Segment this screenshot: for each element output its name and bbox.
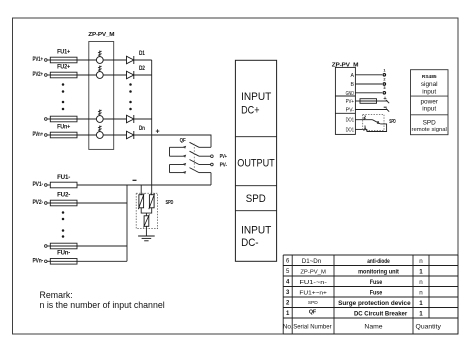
- svg-text:PV-: PV-: [346, 108, 355, 114]
- fuse channel-k: [50, 116, 77, 122]
- wire: [134, 74, 152, 76]
- varistor RV3: [144, 214, 150, 227]
- QF pole 4: [170, 168, 212, 175]
- node PV+ output terminal: [211, 154, 228, 160]
- wire U-link 2: [169, 165, 171, 173]
- ellipsis dots diode column: [129, 83, 132, 110]
- svg-text:GND: GND: [346, 91, 355, 97]
- wire: [77, 134, 96, 136]
- node PVn- terminal: [33, 257, 48, 264]
- pin DO1 lower: [346, 127, 367, 133]
- wire: [103, 74, 126, 76]
- middle terminal box: [235, 60, 276, 261]
- pin DO1 upper: [346, 118, 373, 124]
- svg-text:QF: QF: [180, 138, 187, 144]
- QF pole 3: [170, 160, 211, 167]
- wire: [47, 260, 50, 262]
- svg-text:SPD: SPD: [308, 300, 318, 306]
- svg-text:DO1: DO1: [346, 118, 354, 124]
- monitoring unit box ZP-PV_M (left): [88, 32, 114, 149]
- svg-text:INPUT: INPUT: [241, 91, 271, 103]
- svg-text:1: 1: [419, 310, 423, 317]
- node PV- output terminal: [211, 163, 228, 169]
- svg-text:FU1+~n+: FU1+~n+: [299, 290, 327, 296]
- table row 2 SPD: [286, 300, 423, 307]
- svg-text:PV2+: PV2+: [33, 71, 44, 78]
- svg-text:SPD: SPD: [246, 193, 266, 205]
- node minus collector bus: [126, 185, 128, 261]
- svg-text:n: n: [419, 258, 423, 265]
- fuse FU1-: [50, 175, 77, 188]
- svg-text:DO1: DO1: [346, 127, 354, 133]
- svg-text:FUn+: FUn+: [57, 125, 71, 131]
- table row 3 fuse plus: [286, 289, 423, 296]
- svg-text:Serial Number: Serial Number: [293, 325, 331, 331]
- node PV1- terminal: [33, 181, 48, 188]
- svg-text:SPD: SPD: [423, 120, 437, 127]
- wire power minus end: [384, 107, 390, 112]
- svg-text:DC-: DC-: [241, 237, 259, 249]
- wire: [77, 245, 127, 247]
- fuse FU2+: [50, 65, 77, 78]
- varistor RV2: [149, 193, 155, 209]
- wire: [47, 118, 50, 120]
- wire: [47, 59, 50, 61]
- svg-text:monitoring unit: monitoring unit: [358, 269, 399, 276]
- node terminal 1: [383, 67, 386, 76]
- diode channel k: [127, 115, 134, 123]
- svg-text:1: 1: [419, 300, 423, 307]
- monitoring unit connector ZP-PV_M (right): [332, 63, 359, 135]
- QF linkage (dashed): [193, 144, 195, 171]
- svg-text:PVn-: PVn-: [33, 257, 44, 264]
- fuse FU2-: [50, 192, 77, 206]
- svg-text:DC+: DC+: [241, 104, 259, 116]
- node channel-k minus terminal: [45, 245, 48, 248]
- wire: [47, 74, 50, 76]
- svg-text:A: A: [351, 73, 355, 79]
- svg-text:FU2+: FU2+: [57, 65, 71, 71]
- svg-text:FU2-: FU2-: [57, 192, 70, 198]
- svg-text:ZP-PV_M: ZP-PV_M: [88, 32, 114, 38]
- pin PV+: [346, 99, 360, 105]
- fuse FUn-: [50, 250, 77, 264]
- label SPD remote: [389, 119, 396, 125]
- svg-text:No.: No.: [283, 324, 293, 331]
- CT sensor channel k: [96, 110, 103, 123]
- node terminal 3: [383, 85, 386, 94]
- svg-text:Fuse: Fuse: [370, 279, 383, 286]
- wire: [47, 184, 50, 186]
- svg-text:signal: signal: [421, 81, 438, 88]
- CT sensor channel 2: [96, 66, 103, 79]
- svg-text:Remark:: Remark:: [40, 290, 73, 300]
- node PV1+ terminal: [33, 56, 48, 63]
- svg-text:OUTPUT: OUTPUT: [237, 157, 275, 169]
- svg-text:Dn: Dn: [139, 125, 145, 132]
- svg-text:D1: D1: [139, 50, 145, 57]
- svg-text:n: n: [419, 279, 423, 286]
- wire: [103, 134, 126, 136]
- pin A: [351, 73, 382, 79]
- wire varistor leg minus: [140, 185, 142, 195]
- wire: [134, 59, 152, 61]
- wire: [134, 134, 152, 136]
- wire: [47, 202, 50, 204]
- svg-text:DC Circuit Breaker: DC Circuit Breaker: [354, 311, 408, 318]
- svg-text:input: input: [422, 105, 436, 112]
- svg-text:QF: QF: [309, 310, 317, 316]
- svg-text:n is the number of input chann: n is the number of input channel: [40, 300, 165, 310]
- svg-text:PV+: PV+: [220, 154, 228, 160]
- relay contact 1: [364, 124, 367, 129]
- node PVn+ terminal: [33, 131, 48, 138]
- wire: [103, 118, 126, 120]
- svg-text:FU1-~n-: FU1-~n-: [299, 280, 327, 286]
- relay blade 3: [372, 120, 380, 125]
- diode Dn: [127, 125, 146, 139]
- table row 4 fuse minus: [286, 279, 423, 286]
- wire relay common route: [367, 124, 387, 132]
- wire power plus end: [377, 96, 390, 103]
- ellipsis dots fuse column top: [62, 83, 65, 110]
- svg-text:Surge protection device: Surge protection device: [338, 300, 411, 307]
- svg-text:INPUT: INPUT: [241, 225, 271, 237]
- fuse FUn+: [50, 125, 77, 138]
- diode D1: [127, 50, 146, 64]
- QF pole 2: [170, 151, 211, 158]
- svg-text:Fuse: Fuse: [370, 290, 383, 297]
- BOM table grid: [283, 255, 458, 334]
- node channel-k terminal: [45, 118, 48, 121]
- svg-text:PV1-: PV1-: [33, 181, 44, 188]
- svg-text:input: input: [422, 88, 436, 95]
- relay SPD remote switch (dashed box): [363, 114, 384, 130]
- surge protection device SPD (dashed box): [136, 193, 173, 228]
- wire: [134, 118, 152, 120]
- table row 6 anti-diode: [286, 258, 423, 265]
- svg-text:D2: D2: [139, 65, 145, 72]
- svg-text:FU1-: FU1-: [57, 175, 70, 181]
- svg-text:PVn+: PVn+: [33, 131, 44, 138]
- wire: [77, 74, 96, 76]
- svg-text:B: B: [351, 82, 355, 88]
- wire: [77, 118, 96, 120]
- svg-text:FUn-: FUn-: [57, 250, 70, 256]
- ellipsis dots minus rows: [62, 211, 65, 238]
- svg-text:PV1+: PV1+: [33, 56, 44, 63]
- svg-text:+: +: [156, 129, 160, 136]
- svg-text:n: n: [419, 289, 423, 296]
- pin GND: [346, 91, 382, 97]
- CT sensor channel n: [96, 126, 103, 139]
- circuit breaker QF: [180, 138, 187, 144]
- svg-text:D1~Dn: D1~Dn: [302, 258, 322, 265]
- svg-text:remote signal: remote signal: [412, 127, 447, 133]
- ground: [138, 236, 155, 241]
- svg-text:FU1+: FU1+: [57, 50, 71, 56]
- node minus bus: [77, 180, 211, 185]
- table row 1 QF: [286, 310, 423, 318]
- svg-text:ZP-PV_M: ZP-PV_M: [300, 269, 326, 275]
- svg-text:1: 1: [419, 268, 423, 275]
- RS485 info box: [411, 70, 449, 135]
- node PV2- terminal: [33, 199, 48, 206]
- pin PV-: [346, 108, 388, 114]
- fuse FU1+: [50, 50, 77, 63]
- svg-text:PV2-: PV2-: [33, 199, 44, 206]
- node terminal 2: [383, 77, 386, 86]
- wire to ground: [145, 226, 147, 236]
- wire: [77, 202, 127, 204]
- wire: [103, 59, 126, 61]
- remark text: [40, 290, 165, 310]
- svg-text:SPD: SPD: [166, 200, 174, 206]
- wire: [77, 260, 127, 262]
- fuse channel-k minus: [50, 243, 77, 249]
- wire: [47, 245, 50, 247]
- node + bus: [152, 60, 160, 195]
- CT sensor channel 1: [96, 51, 103, 64]
- node PV2+ terminal: [33, 71, 48, 78]
- QF pole 1: [170, 142, 212, 149]
- wire: [77, 59, 96, 61]
- table row 5 monitoring unit: [286, 268, 423, 275]
- wire: [47, 134, 50, 136]
- varistor RV1: [138, 193, 144, 209]
- wire pole4 to minus bus: [210, 173, 212, 185]
- diode D2: [127, 65, 146, 79]
- table header row: [283, 324, 442, 331]
- wire U-link 1: [169, 147, 171, 156]
- svg-text:PV-: PV-: [220, 163, 228, 169]
- fuse on power feed: [360, 99, 377, 104]
- svg-text:RS485: RS485: [422, 74, 437, 80]
- wire QF feed: [152, 135, 211, 147]
- svg-text:Quantity: Quantity: [416, 324, 442, 331]
- svg-text:anti-diode: anti-diode: [367, 258, 390, 265]
- svg-text:PV+: PV+: [346, 99, 354, 105]
- svg-text:SPD: SPD: [389, 119, 396, 125]
- svg-text:Name: Name: [364, 324, 382, 331]
- wire varistor junction: [141, 208, 152, 216]
- pin B: [351, 82, 382, 88]
- relay contact 2: [364, 115, 367, 120]
